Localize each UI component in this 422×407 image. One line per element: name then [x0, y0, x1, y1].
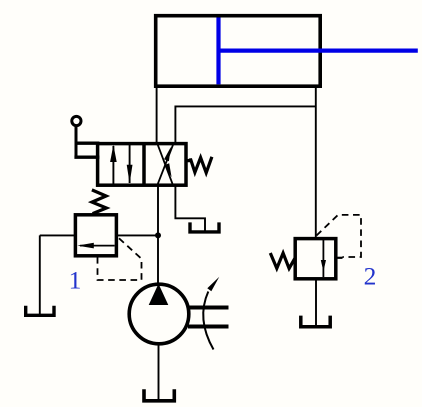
- wire valve to junction and pump: [157, 185, 159, 283]
- valve 2 internal arrow: [321, 240, 326, 277]
- svg-text:1: 1: [69, 266, 82, 295]
- cylinder body: [156, 16, 321, 87]
- directional valve X arrow TL-BR: [157, 144, 173, 186]
- relief valve 1 body: [75, 215, 116, 256]
- directional valve U1 body: [98, 144, 186, 186]
- directional valve left-box up arrow: [110, 145, 117, 184]
- wire branch horizontal: [175, 105, 315, 107]
- lever stem: [75, 127, 78, 158]
- lever bracket top: [77, 142, 100, 145]
- wire relief to tank A: [39, 235, 41, 315]
- valve 2 pilot line (dashed): [317, 215, 362, 257]
- lever bracket bottom: [74, 156, 99, 159]
- wire cylinder left port to valve: [156, 88, 158, 144]
- valve 2 spring (left): [270, 253, 295, 268]
- directional valve spring (right): [187, 157, 212, 173]
- pump circle: [129, 284, 189, 344]
- valve 2 body: [295, 239, 336, 279]
- wire pump to tank D: [158, 345, 160, 401]
- svg-text:2: 2: [364, 261, 377, 290]
- tank D: [144, 389, 174, 401]
- lever actuator circle: [72, 116, 81, 125]
- wire valve drain: [175, 185, 205, 232]
- junction dot: [155, 232, 161, 238]
- relief valve 1 spring: [92, 190, 107, 214]
- directional valve divider: [142, 144, 146, 186]
- pump triangle: [149, 284, 169, 305]
- wire cylinder right port down to valve 2: [315, 88, 317, 239]
- directional valve X arrow BL-TR: [157, 144, 173, 186]
- tank C: [301, 316, 330, 327]
- pump drain lines right: [188, 306, 229, 310]
- pump variable arrow (curved): [203, 277, 219, 350]
- directional valve left-box down arrow: [127, 145, 133, 183]
- piston (blue): [216, 18, 220, 85]
- tank B (valve drain): [190, 222, 219, 232]
- piston rod (blue): [219, 48, 418, 52]
- valve 2 right port stub: [336, 257, 343, 259]
- wire branch vertical to valve: [174, 106, 176, 144]
- relief valve 1 internal arrow: [77, 243, 114, 249]
- wire valve 2 to tank C: [315, 279, 317, 327]
- wire relief left port: [40, 234, 76, 236]
- relief valve 1 pilot line (dashed): [98, 238, 142, 280]
- wire relief right port: [116, 234, 158, 236]
- tank A: [26, 306, 54, 316]
